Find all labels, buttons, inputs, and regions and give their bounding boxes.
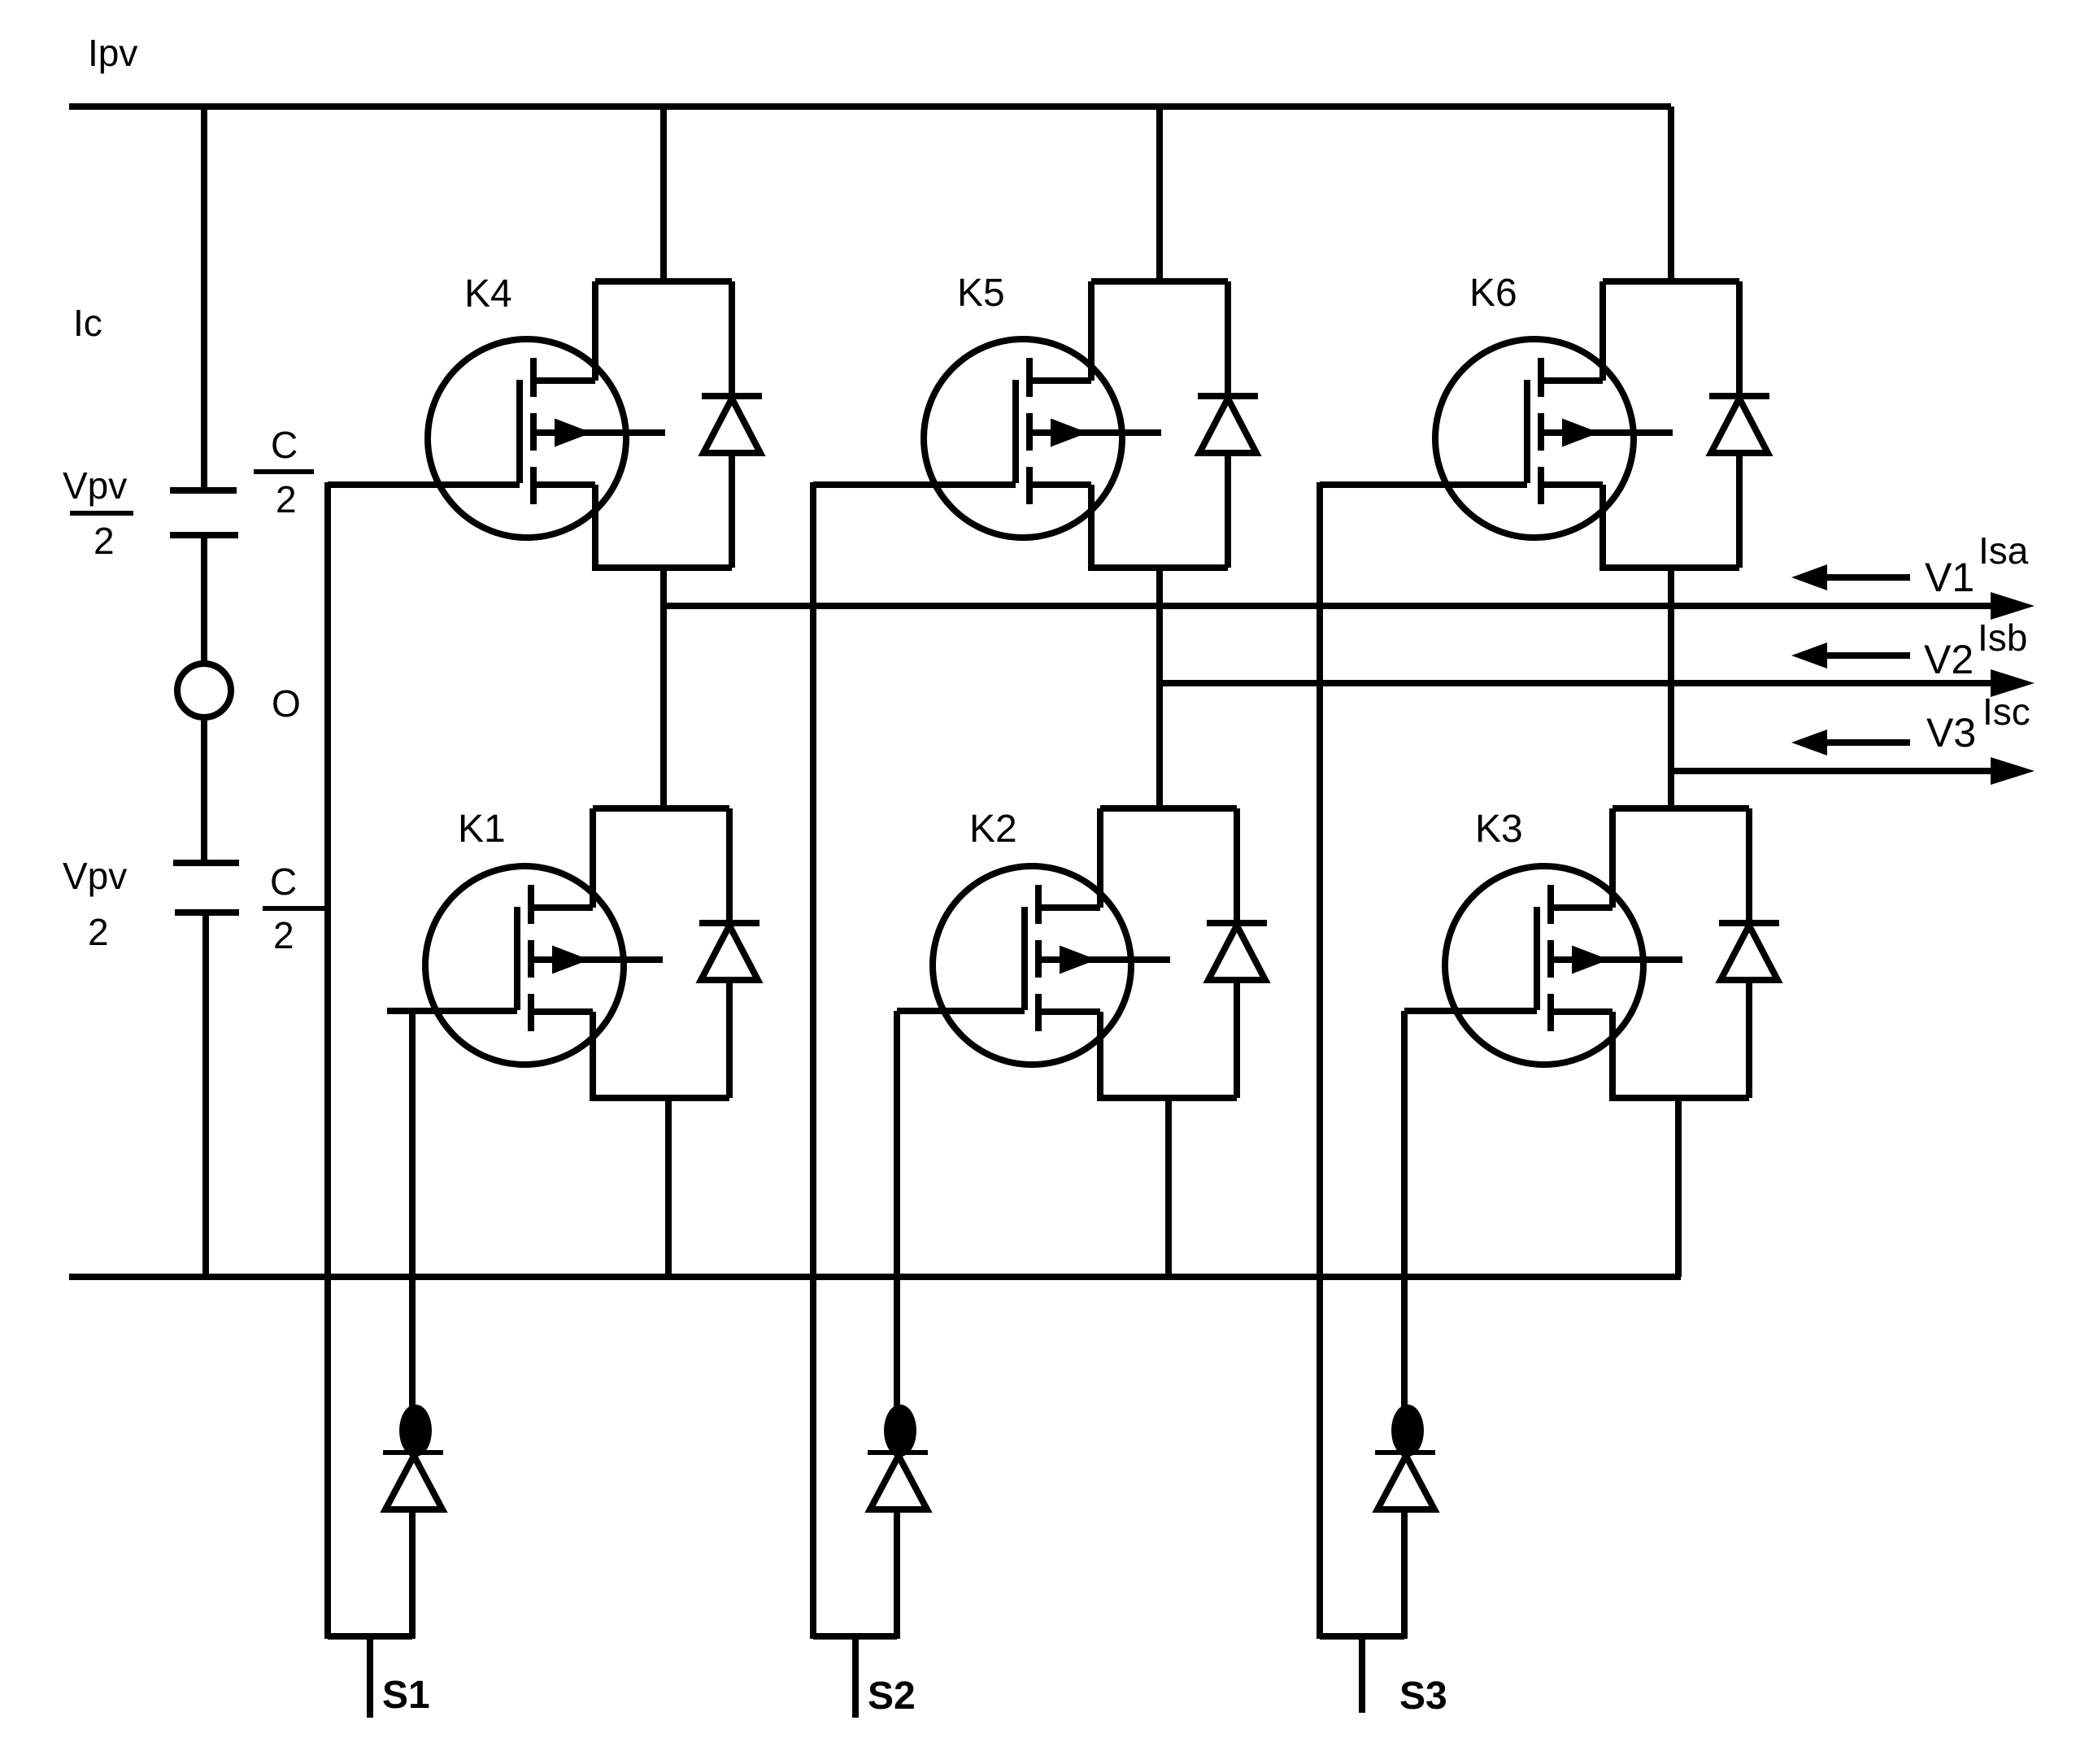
LED/opto emitter of S1 gate driver	[399, 1405, 432, 1457]
wire phase output V2 with Isb current arrow	[1160, 680, 1991, 686]
arrow V2 voltage reference	[1827, 652, 1910, 659]
svg-text:Isb: Isb	[1978, 616, 2027, 659]
svg-text:Isc: Isc	[1982, 690, 2030, 733]
wire gate K4 to S1 bus	[328, 481, 520, 488]
svg-text:Vpv: Vpv	[63, 464, 127, 507]
svg-text:K5: K5	[957, 272, 1005, 315]
svg-text:K6: K6	[1469, 272, 1517, 315]
wire S2 loop	[813, 1633, 897, 1640]
wire O to lower capacitor	[201, 717, 207, 865]
wire gate K5 to S2 bus	[813, 481, 1016, 488]
transistor K4	[428, 339, 626, 538]
LED/opto emitter of S2 gate driver	[884, 1405, 916, 1457]
svg-text:Ic: Ic	[73, 302, 102, 344]
svg-text:K4: K4	[464, 272, 512, 316]
arrow V1 voltage reference	[1827, 574, 1910, 581]
wire rail drop column 2	[1156, 107, 1163, 284]
wire K3 source drop to bottom bus	[1675, 1095, 1682, 1277]
svg-text:2: 2	[276, 478, 297, 520]
wire K1 source drop to bottom bus	[665, 1095, 672, 1277]
svg-text:C: C	[270, 860, 297, 903]
svg-text:Ipv: Ipv	[88, 32, 137, 74]
svg-text:V3: V3	[1926, 710, 1976, 756]
diode D4 (anti-parallel with K4)	[702, 393, 762, 399]
wire gate K1 drive	[387, 1008, 517, 1014]
svg-text:K2: K2	[969, 808, 1017, 851]
wire gate K2 drive	[897, 1008, 1025, 1014]
node O (neutral point)	[177, 664, 231, 717]
svg-text:C: C	[271, 424, 298, 466]
transistor K5	[924, 339, 1122, 538]
svg-text:V2: V2	[1924, 637, 1974, 682]
wire top rail (positive DC bus)	[69, 103, 1671, 110]
svg-text:K3: K3	[1475, 808, 1523, 851]
wire rail drop to DC-link capacitors	[201, 107, 207, 493]
transistor K1	[425, 866, 624, 1065]
svg-text:O: O	[272, 682, 301, 725]
LED/opto emitter of S3 gate driver	[1391, 1405, 1424, 1457]
diode D3 (anti-parallel with K3)	[1719, 920, 1779, 926]
capacitor C/2 upper	[170, 487, 237, 494]
diode D6 (anti-parallel with K6)	[1709, 393, 1769, 399]
wire K4 cell frame	[595, 281, 732, 568]
wire S3 loop	[1320, 1633, 1404, 1640]
wire K2 source drop to bottom bus	[1165, 1095, 1172, 1277]
wire K6 cell frame	[1603, 281, 1739, 568]
transistor K6	[1435, 339, 1634, 538]
wire rail drop column 3	[1668, 107, 1674, 284]
svg-text:2: 2	[94, 520, 115, 562]
wire phase-C midpoint link	[1668, 564, 1674, 812]
transistor K3	[1445, 866, 1643, 1065]
diode D2 (anti-parallel with K2)	[1207, 920, 1267, 926]
transistor K2	[933, 866, 1131, 1065]
wire phase output V1 with Isa current arrow	[664, 603, 1991, 609]
svg-text:K1: K1	[458, 808, 506, 851]
svg-text:V1: V1	[1925, 555, 1974, 600]
wire K2 cell frame	[1100, 808, 1237, 1098]
svg-text:2: 2	[88, 911, 109, 953]
wire gate K6 to S3 bus	[1320, 481, 1527, 488]
svg-text:2: 2	[273, 914, 294, 956]
svg-text:S3: S3	[1399, 1675, 1447, 1718]
svg-text:S2: S2	[868, 1675, 916, 1718]
wire S1 loop	[328, 1633, 412, 1640]
diode D1 (anti-parallel with K1)	[699, 920, 759, 926]
arrow V3 voltage reference	[1827, 739, 1910, 746]
wire K5 cell frame	[1091, 281, 1228, 568]
diode D5 (anti-parallel with K5)	[1198, 393, 1258, 399]
wire phase-A midpoint link	[660, 564, 667, 812]
wire bottom bus (negative DC rail)	[69, 1274, 1681, 1280]
wire gate K3 drive	[1404, 1008, 1537, 1014]
wire K1 cell frame	[593, 808, 729, 1098]
capacitor C/2 lower	[173, 860, 239, 866]
svg-text:Isa: Isa	[1978, 529, 2029, 572]
svg-text:Vpv: Vpv	[63, 855, 127, 897]
svg-text:S1: S1	[382, 1674, 430, 1717]
wire phase-B midpoint link	[1156, 564, 1163, 812]
wire K3 cell frame	[1612, 808, 1749, 1098]
wire rail drop column 1	[660, 107, 667, 284]
wire phase output V3 with Isc current arrow	[1671, 768, 1991, 774]
